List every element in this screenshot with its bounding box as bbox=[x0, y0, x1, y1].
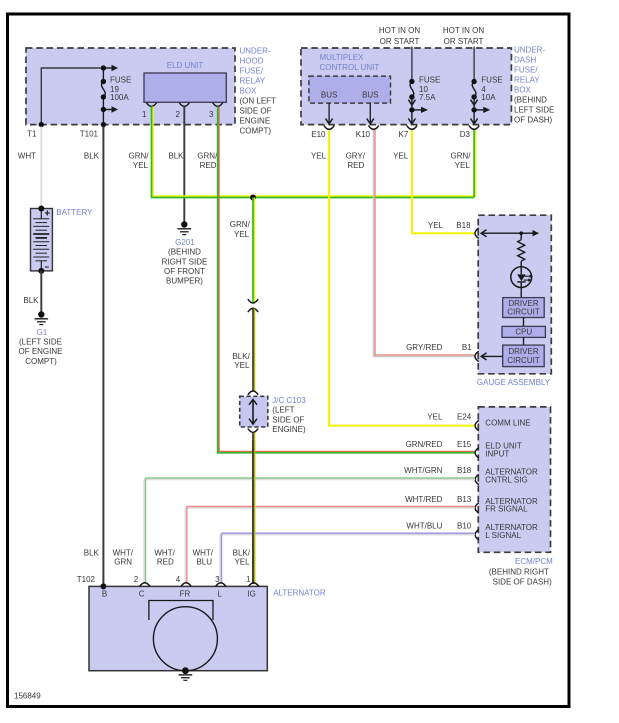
svg-text:OR START: OR START bbox=[444, 37, 484, 46]
svg-text:OF FRONT: OF FRONT bbox=[164, 267, 205, 276]
svg-text:BLK: BLK bbox=[84, 549, 100, 558]
svg-text:RIGHT SIDE: RIGHT SIDE bbox=[162, 257, 208, 266]
hot feed wire 2 bbox=[473, 47, 475, 82]
svg-text:B1: B1 bbox=[462, 343, 472, 352]
svg-text:COMPT): COMPT) bbox=[25, 357, 57, 366]
svg-text:RELAY: RELAY bbox=[240, 77, 266, 86]
svg-text:WHT/: WHT/ bbox=[154, 549, 175, 558]
svg-text:C: C bbox=[139, 590, 145, 599]
J/C C103 cup bottom bbox=[248, 429, 258, 432]
fuse F10 body bbox=[410, 82, 414, 98]
wire WHT T1 to battery bbox=[40, 127, 42, 209]
svg-text:BLK: BLK bbox=[23, 296, 39, 305]
svg-text:2: 2 bbox=[134, 575, 139, 584]
ECM/PCM box bbox=[478, 407, 550, 552]
svg-text:BLK/: BLK/ bbox=[233, 549, 251, 558]
pin FR connector cup bbox=[181, 583, 191, 586]
wire WHT/GRN ECM B18 to alternator C bbox=[143, 480, 145, 585]
svg-text:FUSE/: FUSE/ bbox=[240, 67, 264, 76]
svg-text:T102: T102 bbox=[77, 575, 96, 584]
svg-text:L SIGNAL: L SIGNAL bbox=[485, 531, 521, 540]
alternator rotor circle bbox=[153, 607, 217, 671]
svg-text:YEL: YEL bbox=[311, 152, 327, 161]
svg-text:WHT: WHT bbox=[18, 152, 36, 161]
svg-text:HOT IN ON: HOT IN ON bbox=[443, 26, 484, 35]
svg-text:FR: FR bbox=[180, 590, 191, 599]
svg-text:SIDE OF DASH): SIDE OF DASH) bbox=[493, 578, 552, 587]
wire T1 to fuse 19 bbox=[41, 68, 103, 125]
svg-text:OF DASH): OF DASH) bbox=[514, 116, 553, 125]
svg-text:BUS: BUS bbox=[362, 91, 378, 100]
svg-text:GRN/: GRN/ bbox=[230, 220, 251, 229]
svg-text:MULTIPLEX: MULTIPLEX bbox=[320, 53, 365, 62]
CPU bbox=[523, 318, 525, 327]
ECM pin B13 cup bbox=[475, 503, 478, 513]
wire BLK T101 to alternator B bbox=[102, 127, 104, 587]
wire YEL K7 to gauge B18 bbox=[412, 130, 475, 233]
terminal dot T101 bbox=[101, 122, 106, 127]
svg-text:WHT/: WHT/ bbox=[193, 549, 214, 558]
svg-text:(LEFT SIDE: (LEFT SIDE bbox=[19, 338, 62, 347]
svg-text:BUS: BUS bbox=[321, 91, 337, 100]
wire BLK/YEL overdraw across crossings bbox=[254, 440, 256, 584]
svg-text:(BEHIND RIGHT: (BEHIND RIGHT bbox=[489, 568, 549, 577]
svg-text:B18: B18 bbox=[457, 466, 472, 475]
svg-text:FUSE: FUSE bbox=[110, 76, 131, 85]
svg-text:YEL: YEL bbox=[234, 230, 250, 239]
alternator brush housing bbox=[149, 601, 213, 621]
gauge B18 connector cup bbox=[475, 228, 478, 238]
svg-text:UNDER-: UNDER- bbox=[514, 46, 545, 55]
svg-text:D3: D3 bbox=[460, 130, 471, 139]
pin K10 connector cup bbox=[369, 126, 379, 129]
svg-text:GRY/: GRY/ bbox=[346, 152, 366, 161]
pin E10 connector cup bbox=[324, 126, 334, 129]
svg-text:WHT/BLU: WHT/BLU bbox=[406, 521, 442, 530]
under-hood fuse/relay box bbox=[26, 48, 235, 125]
driver circuit 1 bbox=[503, 298, 545, 318]
svg-text:B13: B13 bbox=[457, 495, 472, 504]
svg-text:RED: RED bbox=[347, 161, 364, 170]
svg-text:J/C C103: J/C C103 bbox=[272, 396, 306, 405]
svg-text:BLK/: BLK/ bbox=[232, 352, 250, 361]
hot feed wire 1 bbox=[411, 47, 413, 82]
svg-text:RED: RED bbox=[200, 161, 217, 170]
svg-text:WHT/RED: WHT/RED bbox=[405, 495, 443, 504]
svg-text:YEL: YEL bbox=[133, 161, 149, 170]
ECM pin B18 cup bbox=[475, 475, 478, 485]
wire BLK/YEL J/C to alternator IG bbox=[254, 433, 256, 585]
svg-text:SIDE OF: SIDE OF bbox=[240, 107, 272, 116]
svg-text:ALTERNATOR: ALTERNATOR bbox=[273, 589, 326, 598]
BUS arrow to E10 bbox=[328, 103, 330, 123]
BUS arrow to K10 bbox=[369, 103, 371, 123]
wire GRN/RED ELD pin3 to ECM E15 bbox=[219, 107, 475, 452]
svg-text:YEL: YEL bbox=[428, 221, 444, 230]
svg-text:E24: E24 bbox=[457, 413, 472, 422]
svg-text:COMPT): COMPT) bbox=[240, 127, 272, 136]
wire GRN/YEL junction to connector bbox=[254, 198, 256, 304]
svg-text:156849: 156849 bbox=[14, 692, 41, 701]
battery bbox=[31, 209, 53, 271]
svg-text:WHT/: WHT/ bbox=[113, 549, 134, 558]
svg-text:FUSE: FUSE bbox=[481, 76, 502, 85]
alternator internal ground bbox=[182, 667, 189, 674]
svg-text:K10: K10 bbox=[356, 130, 371, 139]
svg-text:CNTRL SIG: CNTRL SIG bbox=[485, 476, 527, 485]
ELD pin 2 connector cup bbox=[180, 103, 190, 106]
ECM pin B10 cup bbox=[475, 530, 478, 540]
gauge B1 connector cup bbox=[475, 352, 478, 362]
svg-text:ELD UNIT: ELD UNIT bbox=[167, 61, 204, 70]
alternator box bbox=[89, 586, 267, 670]
junction connector J/C C103 cup top bbox=[248, 391, 258, 394]
svg-text:CONTROL UNIT: CONTROL UNIT bbox=[320, 63, 380, 72]
svg-text:COMM LINE: COMM LINE bbox=[485, 419, 530, 428]
svg-text:GRY/RED: GRY/RED bbox=[406, 343, 443, 352]
svg-text:CIRCUIT: CIRCUIT bbox=[507, 356, 540, 365]
pin K7 connector cup bbox=[407, 126, 417, 129]
svg-text:(BEHIND: (BEHIND bbox=[168, 248, 201, 257]
svg-text:1: 1 bbox=[246, 575, 251, 584]
driver circuit 2 bbox=[523, 337, 525, 345]
svg-text:HOT IN ON: HOT IN ON bbox=[379, 26, 420, 35]
svg-text:GRN/: GRN/ bbox=[197, 152, 218, 161]
svg-text:GRN/RED: GRN/RED bbox=[406, 440, 443, 449]
svg-text:T101: T101 bbox=[80, 130, 99, 139]
svg-text:FUSE/: FUSE/ bbox=[514, 66, 538, 75]
fuse F4 body bbox=[472, 82, 476, 98]
svg-text:HOOD: HOOD bbox=[240, 57, 264, 66]
svg-text:10A: 10A bbox=[481, 93, 496, 102]
ELD pin 3 connector cup bbox=[213, 103, 223, 106]
wire BLK/YEL connector to J/C C103 bbox=[254, 309, 256, 392]
svg-text:E15: E15 bbox=[457, 440, 472, 449]
svg-text:7.5A: 7.5A bbox=[419, 93, 436, 102]
multiplex control unit BUS box bbox=[309, 76, 391, 103]
arrow at fuse 19 bottom bbox=[103, 109, 111, 111]
pin IG connector cup bbox=[249, 583, 259, 586]
svg-text:IG: IG bbox=[247, 590, 255, 599]
resistor bbox=[520, 233, 522, 239]
svg-text:2: 2 bbox=[176, 110, 181, 119]
wire YEL E10 to ECM E24 bbox=[329, 130, 475, 426]
svg-text:1: 1 bbox=[142, 110, 147, 119]
svg-text:GRN: GRN bbox=[114, 558, 132, 567]
svg-text:BATTERY: BATTERY bbox=[56, 208, 93, 217]
svg-text:B: B bbox=[102, 590, 107, 599]
wire GRN/YEL ELD pin1 to junction and D3 bbox=[153, 107, 476, 197]
in-line connector bbox=[248, 300, 258, 303]
svg-text:BOX: BOX bbox=[514, 86, 532, 95]
wire GRY/RED K10 to gauge B1 bbox=[375, 130, 475, 355]
svg-text:B18: B18 bbox=[456, 221, 471, 230]
junction connector J/C C103 bbox=[240, 396, 268, 427]
battery terminal dots bbox=[38, 206, 44, 212]
svg-text:LEFT SIDE: LEFT SIDE bbox=[514, 106, 554, 115]
svg-text:L: L bbox=[217, 590, 222, 599]
svg-text:CPU: CPU bbox=[515, 328, 532, 337]
svg-text:(ON LEFT: (ON LEFT bbox=[240, 97, 277, 106]
pin C connector cup bbox=[140, 583, 150, 586]
svg-text:100A: 100A bbox=[110, 93, 129, 102]
arrow at fuse 19 top bbox=[103, 67, 111, 69]
pin D3 connector cup bbox=[469, 126, 479, 129]
wire WHT/RED ECM B13 to alternator FR bbox=[185, 507, 475, 509]
svg-text:FR SIGNAL: FR SIGNAL bbox=[485, 505, 528, 514]
fuse 19 junction dots bbox=[101, 65, 106, 70]
svg-text:SIDE OF: SIDE OF bbox=[272, 415, 304, 424]
wire WHT/BLU ECM B10 to alternator L bbox=[222, 532, 476, 534]
svg-text:WHT/GRN: WHT/GRN bbox=[404, 466, 442, 475]
terminal dot T102 at pin B bbox=[100, 583, 106, 589]
svg-text:K7: K7 bbox=[399, 130, 409, 139]
gauge B18 internal line with arrows bbox=[482, 232, 539, 234]
ELD unit bbox=[144, 73, 226, 102]
fuse F19 body bbox=[102, 68, 104, 82]
svg-text:G1: G1 bbox=[37, 328, 48, 337]
svg-text:CIRCUIT: CIRCUIT bbox=[507, 308, 540, 317]
under-dash fuse/relay box bbox=[301, 48, 511, 125]
svg-text:UNDER-: UNDER- bbox=[240, 47, 271, 56]
battery plus sign bbox=[45, 212, 50, 214]
svg-text:BLU: BLU bbox=[196, 558, 212, 567]
svg-text:YEL: YEL bbox=[455, 161, 471, 170]
svg-text:ENGINE: ENGINE bbox=[240, 117, 271, 126]
battery minus sign bbox=[45, 266, 49, 268]
svg-text:G201: G201 bbox=[175, 238, 195, 247]
svg-text:(LEFT: (LEFT bbox=[272, 406, 294, 415]
svg-text:E10: E10 bbox=[311, 130, 326, 139]
ELD pin 1 connector cup bbox=[147, 103, 157, 106]
ECM pin E15 cup bbox=[475, 448, 478, 458]
svg-text:RED: RED bbox=[157, 558, 174, 567]
svg-text:BUMPER): BUMPER) bbox=[166, 277, 203, 286]
gauge B1 internal line with arrow bbox=[482, 355, 503, 357]
svg-text:RELAY: RELAY bbox=[514, 76, 540, 85]
svg-text:BLK: BLK bbox=[168, 152, 184, 161]
svg-text:DASH: DASH bbox=[514, 56, 536, 65]
junction node bbox=[250, 195, 256, 201]
svg-text:ENGINE): ENGINE) bbox=[272, 425, 306, 434]
gauge assembly box bbox=[478, 215, 551, 374]
svg-text:DRIVER: DRIVER bbox=[508, 347, 538, 356]
svg-text:(BEHIND: (BEHIND bbox=[514, 96, 547, 105]
ECM pin E24 cup bbox=[475, 421, 478, 431]
svg-text:INPUT: INPUT bbox=[485, 450, 509, 459]
wire BLK ELD pin2 to G201 bbox=[183, 107, 185, 225]
svg-text:B10: B10 bbox=[457, 521, 472, 530]
pin L connector cup bbox=[216, 583, 226, 586]
svg-text:3: 3 bbox=[209, 110, 214, 119]
wire GRN/YEL D3 drop bbox=[475, 130, 477, 196]
terminal dot T1 bbox=[39, 122, 44, 127]
svg-text:OR START: OR START bbox=[380, 37, 420, 46]
LED indicator bbox=[511, 267, 532, 288]
svg-text:YEL: YEL bbox=[234, 558, 250, 567]
svg-text:YEL: YEL bbox=[234, 361, 250, 370]
svg-text:YEL: YEL bbox=[427, 413, 443, 422]
ground G201 bbox=[181, 221, 187, 227]
svg-text:BOX: BOX bbox=[240, 87, 258, 96]
svg-text:YEL: YEL bbox=[393, 152, 409, 161]
svg-text:OF ENGINE: OF ENGINE bbox=[18, 347, 62, 356]
wire BLK battery to G1 bbox=[40, 271, 42, 315]
svg-text:GAUGE ASSEMBLY: GAUGE ASSEMBLY bbox=[477, 378, 551, 387]
ground G1 bbox=[38, 311, 44, 317]
svg-text:4: 4 bbox=[176, 575, 181, 584]
svg-text:BLK: BLK bbox=[84, 152, 100, 161]
svg-text:T1: T1 bbox=[27, 130, 37, 139]
svg-text:ECM/PCM: ECM/PCM bbox=[515, 557, 553, 566]
svg-text:FUSE: FUSE bbox=[419, 76, 440, 85]
svg-text:GRN/: GRN/ bbox=[129, 152, 150, 161]
svg-text:GRN/: GRN/ bbox=[451, 152, 472, 161]
